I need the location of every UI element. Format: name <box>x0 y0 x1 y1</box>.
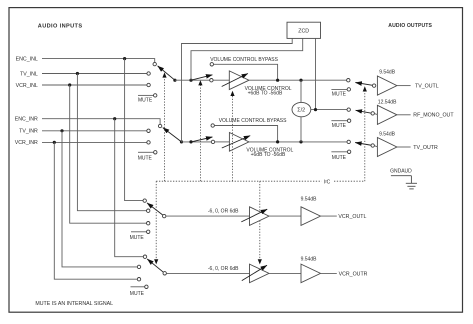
svg-text:RF_MONO_OUT: RF_MONO_OUT <box>413 113 454 119</box>
wire TV_INL <box>42 73 147 75</box>
op-amp 9.54 VCR R <box>301 264 321 283</box>
pivot dot input mux R <box>180 140 183 143</box>
wire ZCD sense drop <box>315 38 317 109</box>
svg-text:AUDIO OUTPUTS: AUDIO OUTPUTS <box>388 23 432 29</box>
wire ENC_INL <box>42 59 155 63</box>
mute terminal R input mux <box>138 151 154 153</box>
switch arm mute 2 <box>356 110 373 113</box>
switch arm input mux R <box>163 128 182 142</box>
control rise to input muxes <box>164 78 166 182</box>
wire R signal row <box>182 141 212 143</box>
I2C control bus dashed <box>156 180 321 182</box>
mute terminal VCR mux1 <box>131 231 147 233</box>
svg-text:9.54dB: 9.54dB <box>301 196 318 202</box>
pivot dot input mux L <box>173 79 176 82</box>
wire sum output <box>311 109 347 111</box>
switch arm bypass R <box>191 137 212 142</box>
svg-text:+6dB TO -56dB: +6dB TO -56dB <box>248 90 283 96</box>
junction VCR_INL <box>68 83 71 86</box>
wire bypass R <box>214 126 277 142</box>
switch arm input mux L <box>158 66 175 80</box>
switch arm mute 3 <box>355 143 373 146</box>
terminal mute switch 3 signal <box>347 140 350 143</box>
terminal mute switch 1 signal <box>347 79 350 82</box>
svg-text:ZCD: ZCD <box>298 28 309 34</box>
wire ENC_INR down to VCR mux2 <box>115 119 144 257</box>
wire amp input R <box>215 141 230 143</box>
ground <box>391 176 417 189</box>
svg-text:AUDIO INPUTS: AUDIO INPUTS <box>38 23 83 29</box>
pivot VCR mux2 <box>163 272 166 275</box>
wire VCR_OUTL <box>321 215 337 217</box>
svg-text:VCR_INR: VCR_INR <box>15 140 38 146</box>
pivot mute 1 <box>372 84 375 87</box>
wire VCR row L <box>166 215 250 217</box>
wire amp input L <box>213 79 229 81</box>
pivot dot bypass switch R <box>189 140 192 143</box>
terminal ENC_INR <box>158 124 161 127</box>
op-amp VCR gain L <box>250 207 270 226</box>
terminal mute switch 2 signal <box>347 108 350 111</box>
svg-text:ENC_INL: ENC_INL <box>16 56 38 62</box>
mute terminal L input mux <box>138 94 154 96</box>
junction TV_INR <box>60 129 63 132</box>
svg-text:VOLUME CONTROL BYPASS: VOLUME CONTROL BYPASS <box>210 57 278 63</box>
VCR mux2 terminals <box>143 255 146 258</box>
wire bypass L <box>214 64 278 80</box>
control rise to mute switches <box>364 92 366 182</box>
junction ZCD sense <box>314 108 317 111</box>
wire VCR_INL down to VCR mux1 <box>70 85 147 223</box>
wire sum input top <box>300 80 302 102</box>
svg-text:MUTE: MUTE <box>138 97 153 103</box>
wire ENC_INR <box>42 119 160 125</box>
wire L signal row <box>175 79 210 81</box>
wire TV_INR <box>42 130 147 132</box>
switch arm mute 1 <box>355 83 374 86</box>
svg-text:VCR_OUTR: VCR_OUTR <box>339 271 368 277</box>
wire R out row <box>249 141 347 143</box>
wire VCR_INR <box>42 141 147 143</box>
terminal ENC_INL <box>153 62 156 65</box>
VCR mux1 terminals <box>143 199 146 202</box>
op-amp VCR gain R <box>250 264 270 283</box>
svg-text:MUTE: MUTE <box>332 155 347 161</box>
svg-text:TV_OUTR: TV_OUTR <box>413 145 438 151</box>
junction VCR_INR <box>53 141 56 144</box>
mute stub 3 <box>331 151 347 153</box>
wire RF_MONO_OUT <box>397 114 411 116</box>
svg-text:TV_OUTL: TV_OUTL <box>415 83 439 89</box>
svg-text:+6dB TO -56dB: +6dB TO -56dB <box>251 152 286 158</box>
wire VCR_INR down to VCR mux2 <box>54 142 137 279</box>
svg-text:-6, 0, OR 6dB: -6, 0, OR 6dB <box>208 209 239 215</box>
gain arrow volume control L <box>222 74 248 87</box>
svg-text:MUTE: MUTE <box>130 291 145 297</box>
svg-text:GNDAUD: GNDAUD <box>390 168 412 174</box>
terminal TV_INR <box>147 129 150 132</box>
switch arm VCR mux2 <box>147 259 165 273</box>
op-amp TV_OUTL <box>377 76 397 95</box>
gain arrow VCR L <box>241 209 267 222</box>
wire VCR_OUTR <box>321 272 337 274</box>
op-amp TV_OUTR <box>377 138 397 157</box>
junction sum tap L <box>299 79 302 82</box>
wire TV_OUTL <box>397 85 411 87</box>
svg-text:MUTE: MUTE <box>332 123 347 129</box>
op-amp RF_MONO_OUT <box>377 105 397 124</box>
junction bypass join L <box>276 79 279 82</box>
svg-text:9.54dB: 9.54dB <box>301 257 318 263</box>
svg-text:VOLUME CONTROL BYPASS: VOLUME CONTROL BYPASS <box>219 118 287 124</box>
gain arrow volume control R <box>222 136 250 148</box>
pivot dot bypass switch L <box>189 79 192 82</box>
op-amp volume control R <box>229 133 249 152</box>
svg-text:TV_INR: TV_INR <box>19 129 38 135</box>
terminal bypass R <box>211 124 214 127</box>
svg-text:ENC_INR: ENC_INR <box>15 117 38 123</box>
control drop to VCR gain amps <box>259 181 261 259</box>
pivot mute 3 <box>371 144 374 147</box>
pivot VCR mux1 <box>163 214 166 217</box>
svg-text:I²C: I²C <box>324 179 331 185</box>
terminal bypass L <box>210 63 213 66</box>
svg-text:9.54dB: 9.54dB <box>379 131 396 137</box>
wire to 9.54 amp L <box>269 215 301 217</box>
terminal VCR_INR <box>147 141 150 144</box>
svg-text:TV_INL: TV_INL <box>20 71 38 77</box>
wire TV_INL down to VCR mux1 <box>77 74 146 211</box>
op-amp 9.54 VCR L <box>301 207 321 226</box>
terminal TV_INL <box>147 72 150 75</box>
switch arm bypass L <box>191 75 212 80</box>
wire VCR row R <box>166 272 249 274</box>
svg-text:Σ/2: Σ/2 <box>297 108 305 114</box>
control rise to volume amps <box>232 96 234 181</box>
wire L out row <box>249 79 347 81</box>
junction TV_INL <box>76 72 79 75</box>
mute stub 1 <box>331 88 347 90</box>
wire ENC_INL down to VCR mux1 <box>125 59 143 201</box>
junction ENC_INL to VCR mux L <box>123 57 126 60</box>
wire to 9.54 amp R <box>269 272 301 274</box>
junction bypass join R <box>276 140 279 143</box>
gain arrow VCR R <box>242 265 267 280</box>
control drop to VCR mux 2 <box>155 181 157 259</box>
wire ZCD to R input mux pivot <box>182 38 293 141</box>
junction ENC_INR <box>113 117 116 120</box>
svg-text:VCR_INL: VCR_INL <box>16 83 38 89</box>
mute stub 2 <box>331 120 347 122</box>
control rise to bypass switches <box>199 85 201 181</box>
wire ZCD to L bypass pivot <box>191 38 303 80</box>
pivot mute 2 <box>371 112 374 115</box>
wire VCR_INL <box>42 84 147 86</box>
summer sigma/2 <box>292 102 311 116</box>
terminal amp input R <box>211 140 214 143</box>
ZCD box U1 <box>287 22 321 38</box>
svg-text:MUTE: MUTE <box>130 235 145 241</box>
svg-text:VCR_OUTL: VCR_OUTL <box>338 214 366 220</box>
svg-text:MUTE: MUTE <box>138 155 153 161</box>
switch arm VCR mux1 <box>147 203 164 216</box>
junction sum tap R <box>299 140 302 143</box>
wire pivot to amp 2 <box>374 114 377 115</box>
wire TV_INR down to VCR mux2 <box>62 131 137 267</box>
terminal VCR_INL <box>147 83 150 86</box>
wire pivot to amp 3 <box>374 146 377 147</box>
svg-text:12.54dB: 12.54dB <box>378 99 397 105</box>
wire sum input bottom <box>300 117 302 142</box>
wire TV_OUTR <box>397 146 411 148</box>
svg-text:MUTE IS AN INTERNAL SIGNAL: MUTE IS AN INTERNAL SIGNAL <box>35 301 113 307</box>
mute terminal VCR mux2 <box>131 286 145 288</box>
svg-text:MUTE: MUTE <box>332 91 347 97</box>
svg-text:-6, 0, OR 6dB: -6, 0, OR 6dB <box>208 266 239 272</box>
op-amp volume control L <box>229 71 249 90</box>
terminal amp input L <box>210 79 213 82</box>
svg-text:9.54dB: 9.54dB <box>379 70 396 76</box>
